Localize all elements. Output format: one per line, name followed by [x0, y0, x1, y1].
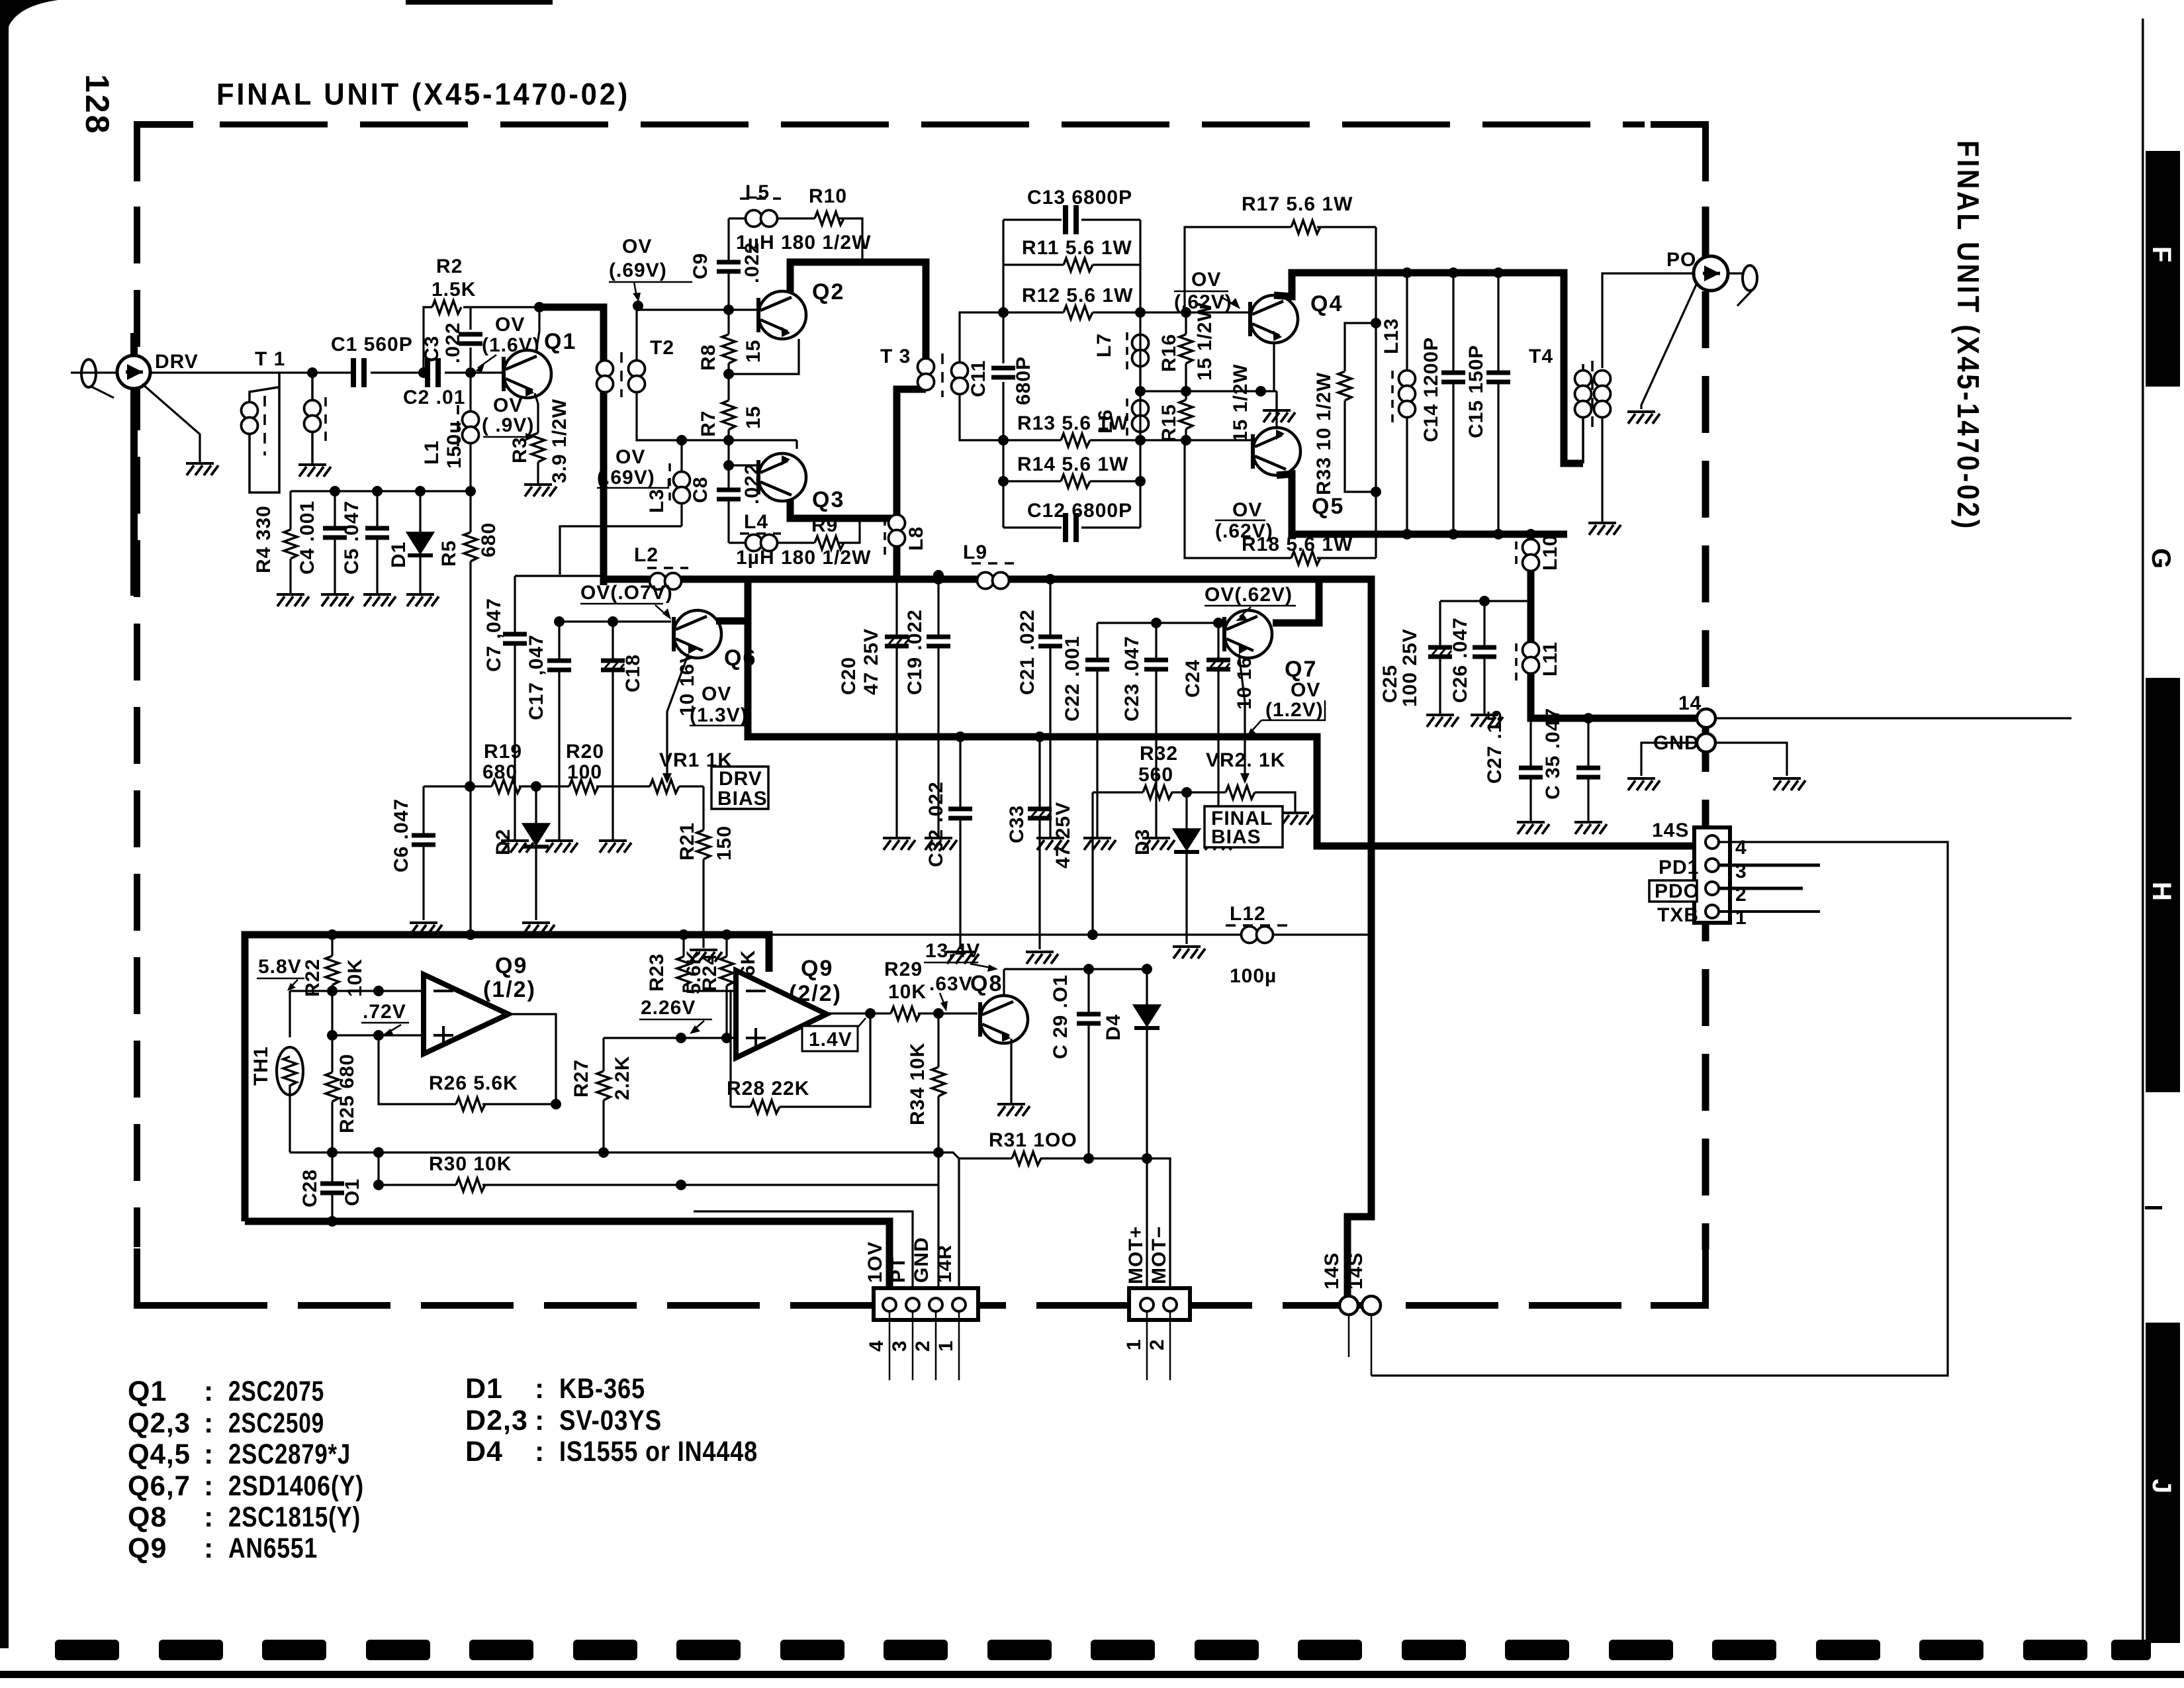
wire stage1 output: [508, 1014, 556, 1104]
ground (C17): [545, 841, 578, 853]
svg-text:R30 10K: R30 10K: [429, 1153, 512, 1175]
svg-text:OV: OV: [1232, 499, 1262, 521]
svg-text:13.4V: 13.4V: [925, 940, 980, 962]
svg-text:Q1: Q1: [544, 329, 576, 354]
svg-text:T 1: T 1: [255, 348, 285, 370]
wire L3 bottom elbow: [560, 526, 682, 575]
right bar J: [2146, 1323, 2180, 1643]
wire C25/C26 top link: [1440, 600, 1531, 602]
node T1 secondary top: [307, 367, 318, 378]
connector DRV: [130, 333, 138, 355]
wire row to Q2 emitter: [729, 339, 799, 374]
svg-text:L1: L1: [421, 440, 443, 465]
T1 core: [263, 396, 266, 455]
ground (D3): [1173, 947, 1205, 959]
ground (C25): [1426, 715, 1459, 727]
svg-text:SV-03YS: SV-03YS: [559, 1405, 662, 1436]
svg-text:2.2K: 2.2K: [612, 1056, 633, 1100]
svg-text:L4: L4: [744, 511, 768, 533]
svg-text:PO: PO: [1666, 249, 1696, 271]
svg-text:680: 680: [478, 522, 500, 557]
node R8/R7: [723, 369, 734, 379]
wire Q1 emitter to R3: [535, 393, 538, 433]
schematic dashed border top-left corner: [137, 124, 193, 181]
ground (C21): [1036, 838, 1069, 850]
svg-text:Q5: Q5: [1312, 494, 1344, 519]
top edge black segment: [406, 0, 553, 5]
wire Q6 base row: [559, 620, 671, 622]
wire stage1 plus row: [332, 1034, 424, 1036]
svg-text:BIAS: BIAS: [717, 788, 768, 810]
wire stage2 minus jog: [731, 991, 736, 1107]
wire Q4/Q5 emitters to ground: [1274, 343, 1277, 428]
svg-text::: :: [204, 1407, 214, 1439]
ground (C18): [599, 841, 631, 853]
svg-text:1: 1: [1123, 1338, 1145, 1350]
svg-text:R28 22K: R28 22K: [727, 1078, 809, 1100]
wire stage1 minus row: [290, 990, 424, 992]
svg-text:(.69V): (.69V): [609, 259, 667, 281]
wire T4 secondary top to PO: [1602, 273, 1692, 368]
svg-text:OV: OV: [1291, 679, 1320, 701]
svg-text:4: 4: [866, 1340, 887, 1352]
svg-text:C12 6800P: C12 6800P: [1027, 500, 1132, 522]
svg-text:R7: R7: [698, 410, 719, 437]
long bias rail to 14S: [769, 933, 1371, 935]
connector 14S (4 pin on border): [1694, 827, 1730, 923]
svg-text:2SC1815(Y): 2SC1815(Y): [228, 1501, 361, 1533]
svg-text:C23 .047: C23 .047: [1121, 635, 1143, 722]
border right dashed: [1702, 207, 1709, 1250]
svg-text:C9: C9: [690, 253, 711, 279]
svg-text:R29: R29: [884, 959, 923, 980]
svg-text:C19 .022: C19 .022: [904, 609, 926, 695]
svg-text:R8: R8: [698, 344, 719, 371]
ground (C22): [1083, 838, 1116, 850]
svg-text:2: 2: [912, 1340, 934, 1352]
svg-text:C17 ,047: C17 ,047: [525, 634, 547, 720]
svg-text::: :: [535, 1405, 545, 1436]
border left dashed: [134, 207, 140, 1247]
border top-right corner: [1651, 124, 1706, 181]
svg-text:R10: R10: [809, 185, 847, 207]
svg-text:D3: D3: [1132, 829, 1154, 855]
svg-text:C7 ,047: C7 ,047: [483, 598, 505, 672]
svg-text:10K: 10K: [888, 981, 927, 1003]
svg-text:R16: R16: [1158, 334, 1180, 372]
ground (C7): [501, 841, 533, 853]
svg-text:AN6551: AN6551: [228, 1532, 318, 1564]
svg-text:Q9: Q9: [801, 956, 833, 981]
svg-text:D2: D2: [492, 829, 514, 855]
ground (C24): [1205, 838, 1237, 850]
svg-text:Q4: Q4: [1310, 291, 1343, 316]
svg-text:2SC2509: 2SC2509: [228, 1407, 324, 1439]
border bottom-left corner: [137, 1248, 193, 1305]
leads below 14S pair: [1348, 1315, 1350, 1357]
svg-text:J: J: [2147, 1479, 2176, 1493]
svg-text:C21 .022: C21 .022: [1017, 609, 1038, 695]
svg-text:L9: L9: [963, 541, 987, 563]
ground (T4): [1588, 523, 1621, 535]
svg-text:1: 1: [1735, 907, 1747, 929]
svg-text:TXB: TXB: [1657, 904, 1699, 926]
svg-text:OV(.O7V): OV(.O7V): [580, 582, 673, 604]
label 1.4V boxed: [802, 1026, 858, 1051]
bias rail under Q1: [291, 490, 471, 492]
svg-text:Q2,3: Q2,3: [128, 1407, 191, 1439]
node Q3 base: [723, 460, 734, 471]
svg-text:C5 .047: C5 .047: [341, 500, 363, 575]
thick wire Q1 collector to T2 primary: [541, 307, 604, 585]
svg-text:OV: OV: [493, 395, 523, 416]
wire: input line from coax to C1: [71, 371, 353, 373]
svg-text:C27 .15: C27 .15: [1484, 710, 1506, 784]
bottom sprocket dashes: [55, 1640, 2151, 1660]
svg-text:15: 15: [743, 340, 764, 363]
T2 primary winding bumps: [597, 361, 614, 393]
svg-text:C13 6800P: C13 6800P: [1027, 187, 1132, 209]
svg-text:14S: 14S: [1321, 1252, 1343, 1289]
wire T3 secondary top to C11: [960, 312, 1003, 392]
T1 primary winding: [250, 373, 279, 492]
svg-text::: :: [535, 1436, 545, 1468]
svg-text:15 1/2W: 15 1/2W: [1194, 302, 1216, 381]
svg-text:R32: R32: [1140, 743, 1178, 765]
wire Q8 collector to 13.4V rail: [1003, 969, 1005, 996]
svg-text:D4: D4: [465, 1436, 503, 1468]
ground (C4): [321, 594, 353, 606]
T2 secondary winding: [635, 361, 638, 392]
ground (R21): [690, 950, 722, 962]
T1 secondary winding: [311, 373, 314, 463]
node base Q1: [465, 367, 476, 378]
thick top rail (Q4 collector): [1274, 273, 1583, 463]
svg-text:L5: L5: [745, 181, 770, 203]
border top dashed: [220, 122, 1645, 128]
svg-text:(.62V): (.62V): [1174, 291, 1232, 313]
svg-text:R5: R5: [438, 540, 460, 567]
svg-text:L2: L2: [634, 544, 659, 566]
svg-text:Q6: Q6: [724, 645, 756, 671]
wire to R16/R15: [1140, 390, 1277, 392]
wire Q7 emitter to VR2 wiper: [1239, 654, 1245, 776]
T4 secondary winding: [1594, 371, 1611, 402]
svg-text:14S: 14S: [1345, 1252, 1367, 1289]
svg-text:128: 128: [79, 74, 116, 135]
svg-text:O1: O1: [341, 1178, 363, 1206]
thick wire T3 center tap down to B+ rail: [897, 389, 926, 583]
svg-text:DRV: DRV: [155, 351, 199, 373]
svg-text:OV: OV: [622, 236, 652, 258]
ground (C26): [1471, 715, 1503, 727]
T3 primary winding: [918, 359, 934, 391]
resistor ladder left rail with C11: [1002, 220, 1004, 528]
ground (C19): [925, 838, 957, 850]
svg-text:C33: C33: [1006, 805, 1028, 843]
svg-text:PD1: PD1: [1659, 857, 1699, 878]
svg-text:C 29 .O1: C 29 .O1: [1050, 974, 1071, 1059]
wire C7 line: [515, 575, 606, 577]
svg-text:R23: R23: [646, 953, 668, 992]
node row C: [723, 435, 734, 445]
wire PT line: [694, 1211, 913, 1296]
ground (VR2): [1281, 813, 1314, 825]
thick op-amp box top rail: [245, 935, 769, 1221]
svg-text:1µH 180 1/2W: 1µH 180 1/2W: [736, 232, 871, 254]
T3 secondary winding: [952, 363, 968, 395]
svg-text:D1: D1: [465, 1373, 503, 1405]
svg-text:OV: OV: [495, 314, 525, 336]
svg-text:BIAS: BIAS: [1211, 826, 1261, 848]
svg-text:C8: C8: [690, 477, 711, 503]
svg-text:3.9 1/2W: 3.9 1/2W: [549, 399, 570, 483]
svg-text:PT: PT: [887, 1256, 909, 1283]
svg-text:R19: R19: [484, 741, 522, 763]
svg-text:150: 150: [713, 825, 735, 861]
svg-text:3: 3: [889, 1340, 911, 1352]
svg-text:TH1: TH1: [250, 1046, 272, 1086]
svg-text:R21: R21: [676, 822, 698, 861]
wire Q3 emitter: [796, 440, 797, 449]
svg-text:Q8: Q8: [970, 971, 1003, 996]
wire Q3 base row: [729, 464, 756, 466]
right bar H: [2146, 678, 2180, 1092]
thick wire Q2 collector row: [790, 262, 926, 363]
svg-text:680P: 680P: [1013, 356, 1034, 405]
ground (C6): [410, 923, 442, 935]
svg-text:R12 5.6 1W: R12 5.6 1W: [1022, 285, 1133, 306]
svg-text:Q1: Q1: [128, 1376, 167, 1407]
svg-text:Q7: Q7: [1285, 657, 1317, 682]
svg-text:OV: OV: [615, 446, 645, 468]
svg-text:R34 10K: R34 10K: [907, 1043, 929, 1125]
svg-text:D2,3: D2,3: [465, 1405, 528, 1436]
wire stage2 plus row: [604, 1037, 736, 1039]
svg-text:FINAL UNIT (X45-1470-02): FINAL UNIT (X45-1470-02): [1951, 140, 1985, 531]
svg-text:2SC2075: 2SC2075: [228, 1376, 324, 1407]
svg-text:14R: 14R: [934, 1244, 956, 1283]
svg-text:C22 .001: C22 .001: [1062, 635, 1083, 722]
thick bottom rail (Q5 collector): [1277, 474, 1567, 534]
svg-text:(1.2V): (1.2V): [1265, 699, 1324, 721]
ground (GND pin left): [1627, 778, 1660, 790]
ground (DRV): [186, 463, 218, 475]
svg-text:( .9V): ( .9V): [482, 414, 534, 436]
svg-text:C24: C24: [1182, 659, 1204, 698]
right letter I: [2145, 1206, 2162, 1209]
svg-text:47 25V: 47 25V: [860, 628, 882, 695]
thick B+ rail (top): [604, 579, 1371, 1297]
thick wire T4 feed down (L10/L11 column): [1531, 534, 1697, 718]
wire T3 secondary bottom to R13 row: [960, 392, 1003, 440]
ground (C20): [883, 838, 915, 850]
node R2/collector: [534, 302, 545, 312]
thick Q7 collector branch: [1273, 579, 1319, 623]
svg-text:L3: L3: [646, 489, 668, 513]
svg-text:C6 .047: C6 .047: [390, 798, 412, 872]
ground (D1): [406, 594, 439, 606]
svg-text::: :: [204, 1470, 214, 1502]
svg-text:C25: C25: [1379, 665, 1401, 703]
wire Q6 emitter to VR1 wiper: [667, 654, 688, 776]
svg-text:1.4V: 1.4V: [809, 1029, 852, 1051]
svg-text:R24: R24: [699, 953, 721, 992]
svg-text:Q8: Q8: [128, 1501, 167, 1533]
wire C2 to Q1 base: [445, 371, 514, 373]
svg-text:FINAL UNIT (X45-1470-02): FINAL UNIT (X45-1470-02): [216, 77, 630, 111]
ground (R4): [277, 594, 309, 606]
svg-text:2.26V: 2.26V: [641, 997, 696, 1019]
node Q2 base: [723, 305, 734, 315]
svg-text:Q9: Q9: [495, 953, 527, 978]
svg-text:Q9: Q9: [128, 1532, 167, 1564]
svg-text:T4: T4: [1529, 346, 1553, 367]
svg-text:R33 10 1/2W: R33 10 1/2W: [1313, 372, 1335, 495]
ground (C35): [1574, 822, 1607, 834]
svg-text:R2: R2: [436, 256, 463, 277]
svg-text:VR2. 1K: VR2. 1K: [1206, 749, 1285, 771]
svg-text:(.69V): (.69V): [597, 467, 655, 489]
wire stage2 output row: [827, 1012, 978, 1014]
svg-text:L6: L6: [1095, 409, 1116, 434]
svg-text::: :: [204, 1376, 214, 1407]
svg-text:KB-365: KB-365: [559, 1373, 645, 1405]
svg-text:R15: R15: [1158, 404, 1180, 442]
svg-text:G: G: [2146, 548, 2175, 569]
svg-text:2SC2879*J: 2SC2879*J: [228, 1438, 351, 1470]
svg-text:Q6,7: Q6,7: [128, 1470, 191, 1502]
svg-text:(1.3V): (1.3V): [690, 704, 748, 726]
wire R2 left leg: [424, 307, 539, 373]
svg-text:1: 1: [935, 1340, 957, 1352]
ground (C23): [1142, 838, 1175, 850]
T2 core: [620, 352, 623, 397]
svg-text:D4: D4: [1103, 1014, 1124, 1041]
svg-text:2SD1406(Y): 2SD1406(Y): [228, 1470, 364, 1502]
svg-text:C4 .001: C4 .001: [296, 500, 318, 575]
svg-text:L11: L11: [1539, 641, 1561, 677]
svg-text:R11 5.6 1W: R11 5.6 1W: [1022, 237, 1132, 259]
left edge black strip: [0, 0, 9, 1648]
coax cable end oval: [81, 359, 96, 387]
svg-text:R9: R9: [811, 514, 838, 536]
svg-text:C26 .047: C26 .047: [1449, 617, 1471, 703]
svg-text:150u: 150u: [443, 421, 465, 469]
svg-text:C3: C3: [421, 336, 443, 362]
wire Q4 base row: [1140, 311, 1248, 313]
svg-text:F: F: [2147, 246, 2176, 262]
ground (C5): [363, 594, 396, 606]
svg-text:C18: C18: [622, 654, 644, 692]
svg-text:2: 2: [1146, 1338, 1168, 1350]
ground (T1): [298, 465, 331, 477]
T4 core: [1591, 361, 1594, 434]
svg-text:C2 .01: C2 .01: [403, 387, 465, 408]
svg-text:R31 1OO: R31 1OO: [989, 1129, 1077, 1151]
bottom edge line: [0, 1671, 2184, 1678]
wire T2 secondary bottom to row: [637, 391, 797, 440]
thick wire Q6 collector: [716, 618, 748, 625]
svg-text:C 35 .047: C 35 .047: [1542, 708, 1564, 800]
svg-text:1OV: 1OV: [864, 1241, 886, 1283]
thick op-amp box bottom rail: [245, 1221, 889, 1296]
svg-text:.72V: .72V: [363, 1001, 406, 1023]
svg-text:H: H: [2147, 882, 2176, 901]
svg-text:(1/2): (1/2): [483, 977, 536, 1002]
wire R32 left leg down to L12 rail: [1091, 792, 1093, 935]
svg-text:L12: L12: [1230, 903, 1266, 925]
svg-text:C32 .022: C32 .022: [925, 781, 947, 867]
border bottom-right corner: [1651, 1248, 1706, 1305]
leads below connector J: [889, 1312, 959, 1380]
svg-text:C15 150P: C15 150P: [1465, 345, 1487, 438]
svg-text:15: 15: [743, 406, 764, 429]
coax oval (PO): [1743, 265, 1757, 291]
wire PO to ground: [1641, 285, 1696, 409]
lower rail op-amp section: [290, 1152, 959, 1296]
svg-text:15 1/2W: 15 1/2W: [1230, 363, 1251, 442]
FINAL BIAS box: [1205, 806, 1283, 847]
svg-text:.63V: .63V: [929, 973, 973, 995]
wire T4 secondary bottom to ground: [1601, 397, 1603, 522]
svg-text:Q4,5: Q4,5: [128, 1438, 191, 1470]
svg-text:R3: R3: [509, 437, 531, 463]
DRV BIAS box: [711, 767, 768, 809]
connector J (10V PT GND 14R): [874, 1288, 978, 1320]
svg-text:4: 4: [1735, 837, 1747, 859]
svg-text:C14 1200P: C14 1200P: [1420, 337, 1442, 442]
svg-text:L13: L13: [1381, 318, 1402, 354]
ground (PO): [1627, 412, 1660, 424]
svg-text:47 25V: 47 25V: [1052, 802, 1074, 868]
wire R17-R18 right vertical: [1375, 227, 1377, 558]
wire Q5 base row: [1140, 439, 1251, 441]
ground (Q4/Q5 emitters): [1263, 410, 1295, 422]
svg-text:PDO: PDO: [1655, 880, 1700, 902]
wire C1-C2: [371, 371, 428, 373]
connector MOT: [1129, 1288, 1190, 1320]
ground (C27): [1517, 822, 1549, 834]
svg-text:R20: R20: [566, 741, 604, 763]
svg-text:OV: OV: [702, 683, 731, 705]
svg-text:14S: 14S: [1652, 820, 1689, 841]
ground (GND pin right): [1773, 778, 1805, 790]
svg-text:R17 5.6 1W: R17 5.6 1W: [1242, 193, 1353, 215]
svg-text:Q3: Q3: [812, 487, 844, 512]
svg-text::: :: [204, 1501, 214, 1533]
svg-text:C1 560P: C1 560P: [331, 334, 413, 355]
svg-text:MOT−: MOT−: [1148, 1226, 1170, 1284]
ground (Q8): [997, 1104, 1030, 1116]
svg-text::: :: [204, 1438, 214, 1470]
svg-text:R27: R27: [570, 1059, 592, 1098]
leads below connector MOT: [1147, 1312, 1170, 1380]
svg-text:IS1555 or IN4448: IS1555 or IN4448: [559, 1436, 758, 1468]
wire T2 secondary top to Q2 base row: [637, 310, 756, 361]
svg-text:T 3: T 3: [880, 346, 911, 367]
thick wire Q3 collector row: [790, 500, 897, 518]
svg-text:GND: GND: [911, 1237, 933, 1283]
svg-text::: :: [535, 1373, 545, 1405]
svg-text:T2: T2: [650, 337, 674, 359]
node L7/L6 junction: [1135, 386, 1146, 397]
right edge thin line: [2142, 19, 2144, 1655]
svg-text:OV(.62V): OV(.62V): [1205, 584, 1293, 606]
svg-text::: :: [204, 1532, 214, 1564]
ground (C32): [946, 952, 979, 964]
svg-text:100µ: 100µ: [1230, 965, 1277, 987]
